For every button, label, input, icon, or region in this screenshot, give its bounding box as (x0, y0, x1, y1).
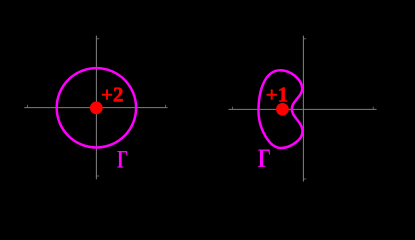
right axis tick top (303, 38, 306, 40)
svg-text:Γ: Γ (258, 143, 271, 173)
right axis tick bottom (303, 178, 306, 180)
right plot horizontal axis (229, 108, 377, 110)
svg-text:+1: +1 (266, 83, 288, 107)
left axis tick left (27, 105, 29, 108)
left axis tick right (165, 105, 167, 108)
left plot vertical axis (95, 36, 97, 180)
left plot horizontal axis (24, 107, 167, 109)
curve Gamma: kidney-shaped contour, winding number 1 (259, 70, 303, 148)
right axis tick left (232, 107, 234, 110)
svg-text:Γ: Γ (117, 147, 128, 174)
right axis tick right (372, 107, 374, 110)
left axis tick bottom (96, 175, 99, 177)
point z0 right (red dot) (276, 103, 289, 116)
curve Gamma: circle, winding number 2 (57, 68, 136, 147)
point z0 left (red dot) (90, 102, 103, 115)
right plot vertical axis (302, 36, 304, 182)
left axis tick top (96, 38, 99, 40)
svg-text:+2: +2 (101, 82, 123, 106)
